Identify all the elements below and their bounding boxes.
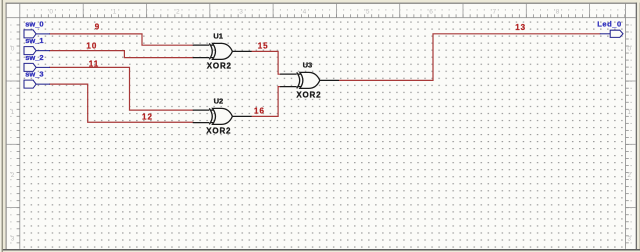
svg-text:2: 2 <box>176 9 180 16</box>
svg-text:13: 13 <box>515 23 526 32</box>
svg-text:15: 15 <box>258 41 269 50</box>
svg-text:3: 3 <box>239 9 243 16</box>
svg-text:1: 1 <box>113 9 117 16</box>
svg-text:0: 0 <box>11 46 15 53</box>
svg-text:XOR2: XOR2 <box>207 61 232 70</box>
svg-text:U3: U3 <box>303 60 313 69</box>
svg-text:sw_3: sw_3 <box>25 70 43 79</box>
svg-text:12: 12 <box>142 113 153 122</box>
svg-text:1: 1 <box>627 109 631 116</box>
svg-text:2: 2 <box>627 172 631 179</box>
svg-text:8: 8 <box>556 9 560 16</box>
svg-text:0: 0 <box>49 9 53 16</box>
svg-text:XOR2: XOR2 <box>296 91 321 100</box>
svg-text:1: 1 <box>11 109 15 116</box>
svg-text:4: 4 <box>303 9 307 16</box>
svg-text:U1: U1 <box>213 31 223 40</box>
svg-text:7: 7 <box>492 9 496 16</box>
svg-text:11: 11 <box>89 60 99 69</box>
svg-text:sw_2: sw_2 <box>25 53 43 62</box>
svg-text:16: 16 <box>254 106 265 115</box>
svg-text:0: 0 <box>627 46 631 53</box>
svg-text:sw_1: sw_1 <box>25 36 43 45</box>
svg-text:XOR2: XOR2 <box>206 126 231 135</box>
svg-text:10: 10 <box>86 41 97 50</box>
svg-text:2: 2 <box>11 172 15 179</box>
svg-text:Led_0: Led_0 <box>597 19 621 28</box>
svg-text:9: 9 <box>95 23 100 32</box>
svg-text:U2: U2 <box>214 97 224 106</box>
svg-text:3: 3 <box>11 236 15 243</box>
svg-text:sw_0: sw_0 <box>25 19 43 28</box>
svg-text:3: 3 <box>627 236 631 243</box>
svg-text:6: 6 <box>429 9 433 16</box>
svg-text:5: 5 <box>366 9 370 16</box>
